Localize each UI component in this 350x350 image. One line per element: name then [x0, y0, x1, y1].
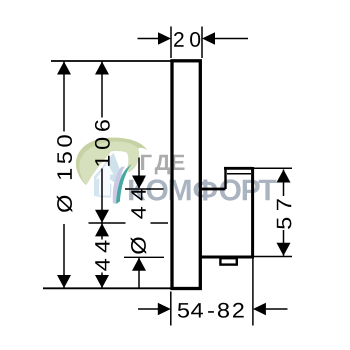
cyan house body: [94, 171, 112, 198]
dim 20: right arrow: [215, 38, 248, 40]
top extension line of plate (thin, to the left): [51, 60, 172, 62]
dim 106: text: [95, 120, 110, 166]
dim 106: line: [101, 62, 103, 118]
dim 54-82: extension lines: [170, 292, 172, 326]
handle cap left edge: [224, 168, 226, 189]
dim 54-82: left arrow: [138, 308, 159, 310]
dim 20: text: [174, 32, 184, 47]
handle cap detail line: [227, 173, 251, 175]
tick extension handle bottom (y=257.3): [124, 256, 164, 258]
centerline through valve axis: [89, 222, 126, 224]
dim 54-82: right arrow: [266, 308, 288, 310]
dim 20: left arrow: [138, 38, 160, 40]
dim 57: text: [277, 199, 292, 229]
dim Ø44: top arrow w tail: [138, 158, 140, 189]
dim 54-82: text: [178, 303, 244, 318]
handle base top edge: [200, 188, 225, 191]
dim Ø44: text: [131, 189, 147, 254]
plate (escutcheon side view): [172, 61, 200, 289]
green arch leaf: [76, 138, 148, 185]
dim 57: extension lines: [254, 167, 292, 169]
dim 44 lower: text: [95, 240, 109, 270]
watermark text ГДЕ: [129, 155, 276, 201]
handle bottom tab: [220, 258, 236, 264]
green arch outer rim: [76, 138, 148, 185]
tick extension handle top (y=189): [125, 188, 164, 190]
dim 20: extension lines: [170, 27, 172, 59]
dim Ø44: bottom arrow w tail: [138, 258, 140, 288]
dim Ø150: text: [57, 135, 73, 212]
handle right edge: [251, 167, 254, 257]
white inner arrow: [96, 163, 114, 196]
bottom baseline (thin, to the left): [43, 287, 172, 289]
handle bottom edge: [200, 256, 254, 259]
handle cap top edge: [224, 167, 253, 170]
cyan house roof: [99, 153, 123, 186]
lavender band: [113, 167, 125, 204]
dim 44 lower: line: [101, 223, 103, 239]
white slit along roof left slope: [95, 153, 115, 178]
watermark text КОМФОРТ: [129, 179, 276, 200]
dim Ø150: line: [63, 62, 65, 132]
dim 57: line + arrows: [283, 170, 285, 197]
teal swoosh: [116, 164, 132, 204]
watermark logo: [76, 138, 148, 204]
